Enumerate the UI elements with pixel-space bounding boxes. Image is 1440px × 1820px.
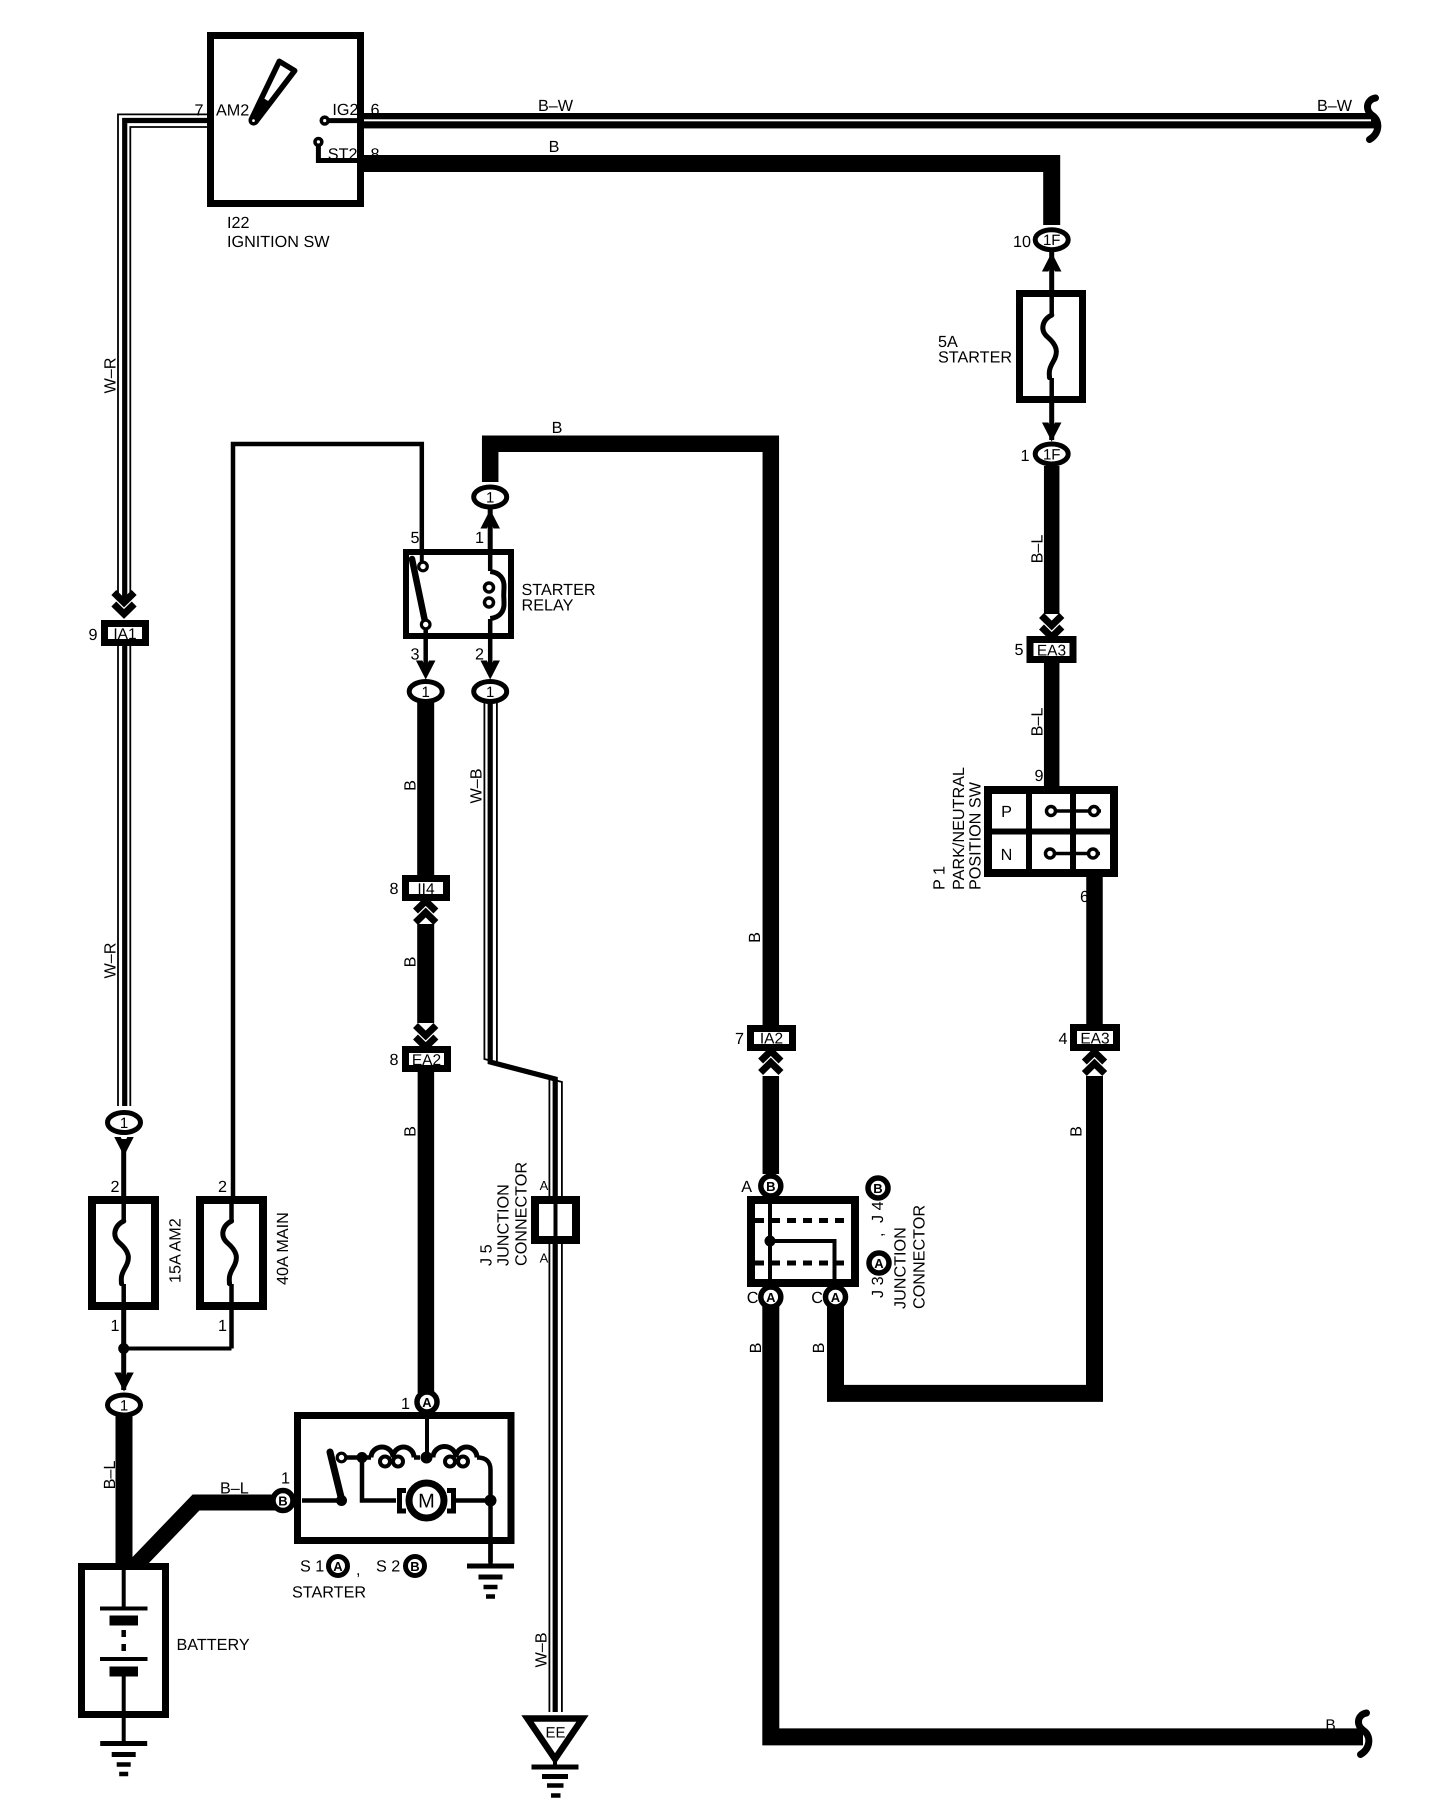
- svg-text:B–L: B–L: [220, 1480, 249, 1498]
- svg-text:A: A: [422, 1395, 432, 1410]
- svg-text:7: 7: [735, 1030, 744, 1048]
- svg-text:I22: I22: [227, 214, 250, 232]
- svg-text:W–R: W–R: [102, 358, 120, 394]
- svg-text:1: 1: [110, 1317, 119, 1335]
- svg-text:9: 9: [88, 626, 97, 644]
- svg-text:6: 6: [371, 101, 380, 119]
- svg-text:JUNCTION: JUNCTION: [495, 1184, 513, 1266]
- svg-text:IG2: IG2: [332, 101, 358, 119]
- svg-text:A: A: [766, 1290, 776, 1305]
- svg-text:9: 9: [1034, 767, 1043, 785]
- svg-text:ST2: ST2: [328, 146, 358, 164]
- svg-text:P: P: [1001, 803, 1012, 821]
- svg-text:1: 1: [218, 1317, 227, 1335]
- svg-text:1: 1: [422, 684, 430, 701]
- svg-text:C: C: [811, 1289, 823, 1307]
- svg-text:B–W: B–W: [538, 97, 574, 115]
- svg-text:1: 1: [475, 529, 484, 547]
- svg-text:8: 8: [371, 146, 380, 164]
- svg-text:1F: 1F: [1043, 446, 1061, 463]
- svg-text:A: A: [540, 1178, 549, 1193]
- svg-text:BATTERY: BATTERY: [177, 1636, 250, 1654]
- svg-text:C: C: [747, 1289, 759, 1307]
- svg-text:EA3: EA3: [1037, 643, 1066, 660]
- svg-text:3: 3: [410, 646, 419, 664]
- svg-text:1: 1: [486, 489, 494, 506]
- svg-text:2: 2: [475, 646, 484, 664]
- svg-text:S 1: S 1: [300, 1558, 324, 1576]
- svg-text:40A MAIN: 40A MAIN: [274, 1212, 292, 1285]
- svg-text:B: B: [747, 1343, 765, 1354]
- svg-text:2: 2: [110, 1178, 119, 1196]
- svg-text:B–L: B–L: [1029, 708, 1047, 737]
- svg-text:W–B: W–B: [468, 768, 486, 803]
- svg-text:8: 8: [389, 1051, 398, 1069]
- svg-text:,: ,: [356, 1561, 361, 1579]
- svg-text:B: B: [1068, 1126, 1086, 1137]
- svg-text:B: B: [549, 138, 560, 156]
- svg-text:J 4: J 4: [869, 1201, 887, 1223]
- svg-text:A: A: [333, 1559, 343, 1574]
- svg-text:B: B: [1325, 1717, 1335, 1734]
- svg-text:S 2: S 2: [376, 1558, 400, 1576]
- svg-text:A: A: [540, 1251, 549, 1266]
- svg-text:POSITION SW: POSITION SW: [967, 781, 985, 890]
- svg-text:JUNCTION: JUNCTION: [892, 1227, 910, 1309]
- svg-text:1: 1: [120, 1397, 128, 1414]
- svg-text:STARTER: STARTER: [938, 349, 1012, 367]
- svg-text:B–L: B–L: [101, 1461, 119, 1490]
- svg-text:STARTER: STARTER: [292, 1584, 366, 1602]
- svg-text:IA1: IA1: [113, 626, 136, 643]
- svg-text:B–W: B–W: [1317, 97, 1353, 115]
- svg-text:10: 10: [1013, 233, 1031, 251]
- svg-text:1: 1: [486, 684, 494, 701]
- svg-text:B: B: [410, 1559, 419, 1574]
- svg-text:1: 1: [1020, 447, 1029, 465]
- svg-text:B: B: [278, 1494, 287, 1509]
- svg-text:B: B: [766, 1179, 775, 1194]
- svg-text:B: B: [402, 1126, 420, 1137]
- svg-text:W–R: W–R: [102, 943, 120, 979]
- svg-text:B: B: [552, 419, 563, 437]
- svg-text:6: 6: [1080, 888, 1089, 906]
- svg-text:RELAY: RELAY: [522, 597, 574, 615]
- svg-text:2: 2: [218, 1178, 227, 1196]
- svg-text:8: 8: [389, 880, 398, 898]
- svg-text:M: M: [418, 1491, 435, 1513]
- svg-text:P 1: P 1: [931, 866, 949, 890]
- svg-text:J 5: J 5: [478, 1244, 496, 1266]
- svg-text:CONNECTOR: CONNECTOR: [513, 1162, 531, 1266]
- svg-text:1: 1: [281, 1470, 290, 1488]
- svg-text:B: B: [402, 957, 420, 968]
- svg-text:J 3: J 3: [869, 1276, 887, 1298]
- svg-text:II4: II4: [417, 881, 435, 898]
- svg-text:4: 4: [1058, 1030, 1067, 1048]
- svg-text:CONNECTOR: CONNECTOR: [911, 1205, 929, 1309]
- svg-text:B: B: [746, 932, 764, 943]
- svg-text:PARK/NEUTRAL: PARK/NEUTRAL: [950, 767, 968, 890]
- svg-text:15A AM2: 15A AM2: [167, 1218, 185, 1283]
- svg-text:1: 1: [401, 1395, 410, 1413]
- svg-text:7: 7: [194, 102, 203, 120]
- svg-text:IGNITION SW: IGNITION SW: [227, 233, 330, 251]
- svg-text:A: A: [874, 1256, 884, 1271]
- svg-text:IA2: IA2: [760, 1031, 783, 1048]
- svg-text:B: B: [873, 1181, 882, 1196]
- svg-text:1F: 1F: [1043, 232, 1061, 249]
- svg-text:EA3: EA3: [1080, 1031, 1109, 1048]
- svg-text:5: 5: [410, 529, 419, 547]
- svg-text:A: A: [741, 1178, 752, 1196]
- svg-text:EE: EE: [545, 1725, 565, 1742]
- svg-text:EA2: EA2: [412, 1052, 441, 1069]
- svg-text:B: B: [402, 780, 420, 791]
- svg-text:A: A: [831, 1290, 841, 1305]
- svg-text:AM2: AM2: [216, 102, 249, 120]
- svg-text:B: B: [810, 1343, 828, 1354]
- svg-text:W–B: W–B: [533, 1632, 551, 1667]
- svg-text:N: N: [1001, 846, 1013, 864]
- svg-text:5: 5: [1014, 641, 1023, 659]
- svg-text:B–L: B–L: [1029, 535, 1047, 564]
- svg-text:1: 1: [120, 1115, 128, 1132]
- svg-text:,: ,: [869, 1233, 887, 1238]
